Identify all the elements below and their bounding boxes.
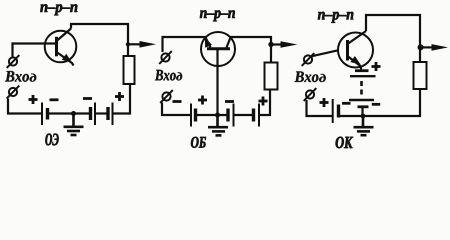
terminal input-1 (c3) [302, 53, 315, 66]
battery GB2 cell2 long plate [112, 103, 114, 126]
terminal input-2 (c2) [160, 90, 173, 103]
label n-p-n (Q1) [40, 4, 77, 15]
transistor Q2 [201, 32, 235, 66]
label n-p-n (Q3) [318, 12, 353, 23]
battery GB2 (c1 right) cell1 short plate [89, 107, 92, 120]
terminal input-1 (c1) [7, 55, 20, 68]
battery GB5 short plate [337, 105, 340, 118]
battery GB1 (c1 left) long plate [41, 103, 43, 126]
node output junction (c3) [418, 44, 424, 50]
battery GB3 minus sign [173, 100, 182, 103]
ground (c2) [208, 115, 228, 135]
battery GB4 cell1 short plate [226, 109, 229, 122]
wire terminal-2 down to bottom rail (c3) [307, 100, 333, 116]
collector wire Q1 top rail [71, 24, 128, 56]
battery GB6 cell2 long plate [349, 99, 374, 101]
wire GB4 to R2 [260, 90, 271, 116]
base lead Q2 down [216, 50, 218, 115]
battery GB6 dashed middle [360, 81, 363, 95]
collector wire Q3 top rail [366, 15, 420, 62]
battery GB1 plus sign [29, 95, 38, 104]
wire emitter Q2 to input [163, 37, 207, 52]
resistor R2 [265, 63, 278, 90]
terminal input-2 (c1) [7, 86, 20, 99]
node ground junction (c3) [361, 114, 366, 119]
battery GB6 (emitter) cell1 short plate [355, 69, 369, 72]
output arrow (c2) [271, 43, 282, 45]
wire GB1 to ground node [49, 112, 90, 114]
label Vkhod (c3) [295, 72, 326, 83]
wire base Q3 to input [311, 50, 338, 56]
node output junction (c1) [126, 42, 130, 46]
battery GB5 plus sign [320, 98, 329, 107]
collector wire Q2 to output [230, 37, 271, 63]
wire between GB4 cells [234, 114, 253, 116]
battery GB4 cell1 long plate [233, 104, 235, 127]
label OE [45, 134, 58, 146]
battery GB3 (c2 left) long plate [190, 104, 192, 127]
wire GB6 to bottom rail [361, 108, 363, 117]
battery GB4 cell2 short plate [252, 109, 255, 122]
terminal input-1 (c2) [159, 51, 172, 64]
wire terminal-2 down to bottom rail (c1) [8, 99, 41, 114]
node output junction (c2) [268, 42, 273, 47]
label OB [191, 137, 206, 148]
node base-ground junction (c2) [215, 113, 220, 118]
battery GB4 plus sign [259, 97, 268, 106]
battery GB6 plus sign [372, 62, 381, 71]
battery GB2 cell1 long plate [94, 103, 96, 126]
wire terminal-2 down to bottom rail (c2) [162, 103, 191, 116]
wire R3 to bottom rail [363, 89, 420, 116]
wire R1 to bottom rail [114, 84, 131, 114]
ground (c3) [354, 116, 374, 135]
ground (c1) [64, 114, 84, 136]
battery GB1 minus sign [50, 98, 59, 101]
battery GB5 (c3 input) long plate [332, 99, 334, 123]
battery GB2 cell2 short plate [106, 107, 109, 120]
label OK [336, 137, 353, 149]
battery GB4 minus sign [225, 100, 234, 103]
resistor R3 [414, 62, 427, 89]
battery GB6 cell2 short plate [358, 105, 369, 108]
wire GB5 to ground node [340, 115, 364, 117]
transistor Q1 [45, 29, 77, 66]
wire between GB2 cells [96, 112, 108, 114]
battery GB2 plus sign [115, 92, 124, 101]
terminal input-2 (c3) [304, 88, 317, 101]
label Vkhod (c2) [155, 70, 182, 81]
battery GB3 short plate [194, 109, 197, 122]
wire GB3 to ground node and GB4 [197, 114, 228, 116]
output arrow (c1) [128, 43, 141, 45]
wire base Q1 to input [13, 44, 56, 58]
label n-p-n (Q2) [200, 10, 235, 21]
battery GB6 cell1 long plate [350, 75, 376, 77]
output arrow (c3) [421, 46, 434, 48]
battery GB3 plus sign [198, 96, 207, 105]
battery GB6 minus sign left [342, 102, 351, 105]
label Vkhod (c1) [5, 71, 36, 82]
battery GB4 cell2 long plate [258, 104, 260, 127]
node emitter-ground junction (c1) [71, 111, 76, 116]
resistor R1 [124, 56, 135, 84]
battery GB1 short plate [46, 108, 49, 120]
battery GB6 minus sign right [372, 103, 380, 106]
battery GB2 minus sign [83, 97, 92, 100]
transistor Q3 [338, 31, 373, 71]
